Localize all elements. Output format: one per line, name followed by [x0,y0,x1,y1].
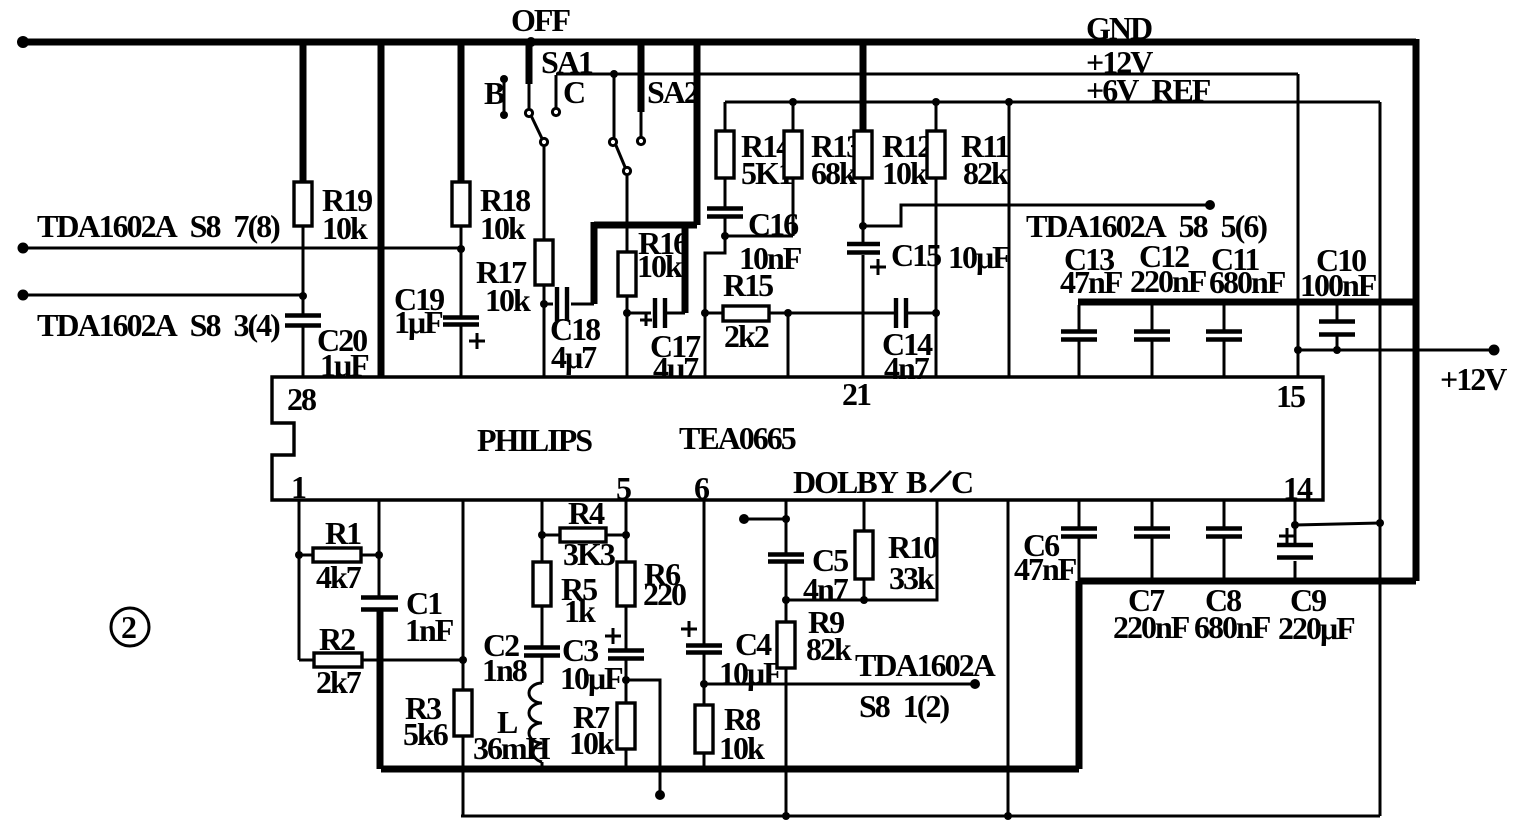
wire IC pin 1 column [295,500,303,660]
svg-text:47nF: 47nF [1014,551,1077,587]
svg-text:10k: 10k [882,155,928,191]
svg-text:220μF: 220μF [1278,610,1355,646]
svg-text:100nF: 100nF [1300,267,1377,303]
wire IC pin 10 column [1007,500,1010,816]
wire +6V REF bottom distribution rail [461,812,1380,820]
resistor R13 [784,102,802,236]
resistor R5 [533,562,551,647]
svg-text:220nF: 220nF [1130,263,1207,299]
node TDA1602A S8 1(2) terminal line [704,679,980,689]
svg-text:82k: 82k [806,631,852,667]
svg-text:TDA1602A S8 3(4): TDA1602A S8 3(4) [37,307,280,343]
wire GND branch down to C18 [591,222,598,304]
switch SA1 [525,109,547,240]
svg-text:R2: R2 [319,621,355,657]
resistor R16 [618,252,636,377]
capacitor C7 [1134,500,1170,581]
svg-text:47nF: 47nF [1060,264,1123,300]
wire GND right side vertical bus [1413,39,1420,581]
svg-text:DOLBY: DOLBY [793,464,899,500]
resistor R15 [701,306,792,377]
svg-text:TEA0665: TEA0665 [679,420,796,456]
wire +6V REF rail [725,98,1380,106]
node TDA1602A S8 7(8) terminal line [18,243,466,254]
wire GND bus segment to IC pin 27 [378,42,385,377]
svg-text:10k: 10k [569,725,615,761]
svg-text:10k: 10k [480,210,526,246]
svg-text:82k: 82k [963,155,1009,191]
wire IC pin 19 column from +6V rail [1008,102,1011,377]
svg-text:4k7: 4k7 [316,559,362,595]
capacitor C16 [705,209,793,314]
resistor R18 [452,182,470,317]
svg-text:R1: R1 [325,515,361,551]
svg-text:1μF: 1μF [394,304,443,340]
capacitor C2 [524,648,560,656]
capacitor C9 [1277,500,1313,581]
node TDA1602A 58 5(6) terminal line [863,200,1215,226]
capacitor C18 [540,287,594,321]
svg-text:6: 6 [694,470,710,506]
IC U1 PHILIPS TEA0665 body [272,377,1323,500]
resistor R4 [542,528,630,542]
svg-text:21: 21 [842,376,871,412]
resistor R11 [927,102,945,377]
capacitor C20 [285,295,321,377]
svg-text:C16: C16 [748,206,799,242]
svg-text:33k: 33k [889,560,935,596]
resistor R1 [299,548,379,562]
svg-text:5k6: 5k6 [403,716,449,752]
capacitor C15 [847,244,886,377]
svg-text:10k: 10k [322,210,368,246]
svg-text:C: C [563,74,584,110]
svg-text:SA2: SA2 [647,74,699,110]
inductor L 36mH [529,656,542,769]
svg-text:C15: C15 [891,237,941,273]
svg-text:15: 15 [1276,378,1305,414]
wire IC pin 7 column [782,500,790,554]
svg-text:2: 2 [121,609,136,645]
wire GND horizontal branch y225 [594,222,697,229]
resistor R3 [454,660,472,816]
wire IC pin 6 column [703,500,706,645]
wire GND bus segment to R18 [458,42,465,182]
svg-text:B: B [906,464,927,500]
svg-text:220: 220 [643,576,686,612]
resistor R10 [855,531,873,604]
resistor R17 [535,240,553,377]
resistor R19 [294,182,312,295]
svg-text:10μF: 10μF [560,660,623,696]
resistor R9 [777,600,795,816]
wire +12V rail [556,70,1298,78]
wire GND thick riser at x1079 [1076,581,1083,769]
wire IC pin 5 column [625,500,628,562]
capacitor C12 [1134,305,1170,377]
svg-text:36mH: 36mH [473,730,551,766]
capacitor C5 [768,555,804,605]
svg-text:680nF: 680nF [1209,264,1286,300]
svg-text:R4: R4 [568,495,605,531]
svg-text:14: 14 [1283,470,1313,506]
node C contact of SA1 [552,75,559,116]
wire C9 top to +6V REF drop [1295,523,1380,525]
wire +6V REF drop at right down to bottom rail [1376,102,1384,816]
wire GND thick bus under C6-C9 [1079,578,1416,585]
svg-text:10k: 10k [637,248,683,284]
capacitor C10 [1319,305,1355,354]
resistor R7 [617,680,635,769]
svg-text:220nF: 220nF [1113,609,1190,645]
node B contact of SA1 [500,75,508,119]
svg-text:28: 28 [287,381,316,417]
wire GND branch down to C17 [682,222,689,313]
switch SA2 [609,77,644,252]
capacitor C8 [1206,500,1242,581]
node TDA1602A S8 3(4) terminal line [18,290,308,301]
resistor R2 [299,653,467,667]
capacitor C14 [788,298,936,377]
wire pin 7 stub terminal [739,514,786,524]
svg-text:680nF: 680nF [1194,609,1271,645]
svg-text:C: C [951,464,972,500]
wire +12V rail drop to IC pin 15 [1294,74,1302,377]
wire GND bus segment to R19 [300,42,307,182]
wire IC pin 3 column [462,500,465,660]
capacitor C13 [1061,305,1097,377]
wire GND top bus [17,36,1416,48]
svg-text:S8 1(2): S8 1(2) [859,688,949,724]
resistor R6 [617,562,635,650]
capacitor C1 [361,598,398,610]
svg-text:2k7: 2k7 [316,664,362,700]
svg-text:10μF: 10μF [719,655,782,691]
resistor R8 [695,684,713,769]
svg-text:4μ7: 4μ7 [551,339,597,375]
wire GND bottom thick bus [381,766,1079,773]
svg-text:4n7: 4n7 [884,350,930,386]
wire GND drop at x697 to C17/C18 branch [694,42,701,225]
svg-text:TDA1602A S8 7(8): TDA1602A S8 7(8) [37,208,280,244]
capacitor C3 [605,628,644,684]
label circled figure 2 [111,608,149,646]
wire SA2 OFF contact stub from GND bus [638,42,645,137]
wire IC pin 4 column [538,500,546,562]
wire C3 node branch with end dot [626,680,665,800]
svg-text:R15: R15 [723,267,773,303]
capacitor C11 [1206,305,1242,377]
svg-text:PHILIPS: PHILIPS [477,422,592,458]
svg-text:+12V: +12V [1440,361,1507,397]
wire IC pin 8 column [863,500,866,531]
svg-text:5: 5 [616,470,631,506]
resistor R14 [716,102,734,207]
wire C5 R9 R10 node line to IC pin 9 [786,500,937,600]
svg-text:10k: 10k [719,730,765,766]
wire GND thick drop from C1 to bottom bus [377,610,384,769]
svg-text:1k: 1k [564,593,596,629]
capacitor C17 [627,298,685,328]
svg-text:GND: GND [1086,10,1152,46]
wire SA1 pole stub from GND bus [526,37,536,108]
capacitor C4 [681,621,722,688]
capacitor C19 [443,318,485,378]
svg-text:+6V REF: +6V REF [1086,72,1211,108]
wire GND bus segment to R12 [860,42,867,131]
wire GND thick bus y302 over C13 C12 C11 [1078,299,1416,306]
svg-text:2k2: 2k2 [724,318,769,354]
svg-text:4n7: 4n7 [803,571,849,607]
svg-text:3K3: 3K3 [563,536,615,572]
svg-text:OFF: OFF [511,2,570,38]
svg-text:B: B [484,75,505,111]
wire IC pin 2 column [375,500,383,597]
svg-text:10μF: 10μF [948,239,1011,275]
svg-text:1: 1 [291,469,306,505]
capacitor C6 [1061,500,1097,581]
wire +12V output branch [1298,345,1500,356]
svg-text:10k: 10k [485,282,531,318]
resistor R12 [854,131,872,243]
svg-text:TDA1602A: TDA1602A [855,647,996,683]
svg-text:1n8: 1n8 [482,652,527,688]
svg-text:1nF: 1nF [405,612,454,648]
svg-text:68k: 68k [811,155,857,191]
